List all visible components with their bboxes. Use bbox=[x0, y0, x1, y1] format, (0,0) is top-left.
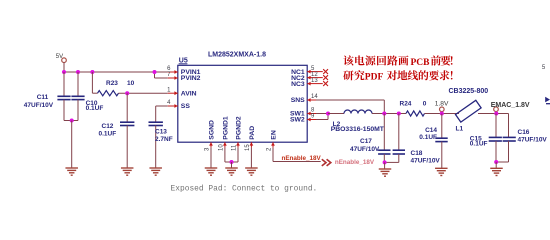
svg-text:PAD: PAD bbox=[249, 126, 256, 140]
svg-text:L1: L1 bbox=[456, 126, 464, 133]
svg-text:0.1UF: 0.1UF bbox=[99, 131, 117, 138]
svg-text:15: 15 bbox=[245, 144, 251, 151]
svg-text:14: 14 bbox=[311, 94, 318, 100]
svg-text:EMAC_1.8V: EMAC_1.8V bbox=[491, 102, 530, 109]
svg-text:R24: R24 bbox=[400, 101, 412, 108]
svg-text:PBO3316-150MT: PBO3316-150MT bbox=[331, 126, 385, 133]
svg-text:nEnable_18V: nEnable_18V bbox=[282, 155, 322, 162]
svg-text:PGND2: PGND2 bbox=[235, 116, 242, 140]
svg-text:10: 10 bbox=[127, 80, 135, 87]
svg-text:47UF/10V: 47UF/10V bbox=[518, 136, 548, 143]
svg-text:SNS: SNS bbox=[291, 97, 305, 104]
svg-text:C14: C14 bbox=[425, 127, 437, 134]
svg-text:EN: EN bbox=[270, 130, 277, 140]
svg-text:0.1UF: 0.1UF bbox=[419, 134, 437, 141]
svg-text:C13: C13 bbox=[155, 129, 167, 136]
svg-text:C16: C16 bbox=[518, 129, 530, 136]
svg-text:NC3: NC3 bbox=[291, 81, 305, 88]
svg-text:nEnable_18V: nEnable_18V bbox=[335, 159, 375, 166]
svg-text:10: 10 bbox=[218, 144, 224, 151]
svg-text:PVIN2: PVIN2 bbox=[181, 75, 201, 82]
svg-text:0.1UF: 0.1UF bbox=[470, 141, 488, 148]
svg-text:11: 11 bbox=[231, 144, 237, 151]
svg-text:CB3225-800: CB3225-800 bbox=[449, 88, 489, 95]
svg-text:C12: C12 bbox=[102, 123, 114, 130]
svg-text:PCB: PCB bbox=[411, 58, 431, 68]
svg-text:2.7NF: 2.7NF bbox=[155, 136, 173, 143]
svg-text:C18: C18 bbox=[411, 150, 423, 157]
svg-text:C17: C17 bbox=[360, 138, 372, 145]
svg-text:C11: C11 bbox=[37, 94, 49, 101]
svg-text:LM2852XMXA-1.8: LM2852XMXA-1.8 bbox=[208, 52, 266, 59]
svg-text:SW2: SW2 bbox=[290, 117, 305, 124]
svg-text:SS: SS bbox=[181, 103, 191, 110]
svg-text:0.1UF: 0.1UF bbox=[86, 105, 104, 112]
svg-text:PGND1: PGND1 bbox=[222, 116, 229, 140]
svg-text:47UF/10V: 47UF/10V bbox=[350, 146, 380, 153]
svg-text:PDF: PDF bbox=[365, 73, 384, 83]
svg-text:13: 13 bbox=[311, 78, 318, 84]
svg-text:0: 0 bbox=[423, 101, 427, 108]
svg-text:47UF/10V: 47UF/10V bbox=[411, 157, 441, 164]
svg-text:Exposed Pad: Connect to ground: Exposed Pad: Connect to ground. bbox=[171, 184, 318, 193]
svg-text:SGND: SGND bbox=[208, 120, 215, 140]
svg-text:47UF/10V: 47UF/10V bbox=[24, 102, 54, 109]
svg-text:AVIN: AVIN bbox=[181, 90, 197, 97]
svg-text:R23: R23 bbox=[106, 80, 118, 87]
